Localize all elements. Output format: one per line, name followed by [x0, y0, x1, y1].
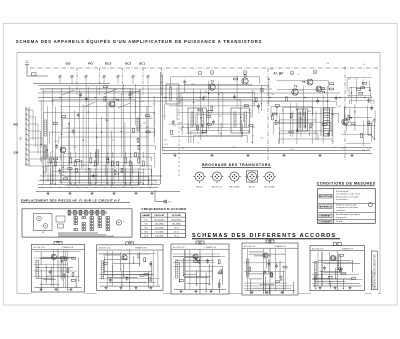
svg-text:100: 100	[260, 137, 263, 139]
svg-text:7,0-7,4Mc: 7,0-7,4Mc	[155, 232, 164, 234]
svg-text:2,2k: 2,2k	[338, 106, 341, 108]
svg-text:BROCHAGE DES TRANSISTORS: BROCHAGE DES TRANSISTORS	[202, 163, 271, 167]
svg-text:FI. BF: FI. BF	[274, 71, 285, 75]
svg-text:220: 220	[252, 127, 255, 129]
svg-text:1k: 1k	[197, 100, 199, 102]
svg-text:0,5: 0,5	[219, 116, 221, 118]
svg-text:47: 47	[198, 143, 200, 145]
svg-text:330: 330	[348, 78, 351, 80]
svg-text:CONDITIONS DE MESURES: CONDITIONS DE MESURES	[317, 181, 376, 185]
svg-text:T6: T6	[322, 90, 326, 94]
svg-text:OC3: OC3	[105, 62, 112, 66]
svg-text:10k: 10k	[326, 63, 329, 65]
svg-text:PO: PO	[56, 242, 60, 245]
svg-text:APPAREILS: APPAREILS	[320, 205, 332, 208]
svg-text:à la masse: à la masse	[336, 217, 347, 219]
svg-text:470: 470	[164, 139, 167, 141]
svg-text:68k: 68k	[308, 111, 311, 113]
svg-text:L’oscillateur et capt. circuit: L’oscillateur et capt. circuit	[336, 193, 361, 196]
svg-text:En hétérodyne par rapport: En hétérodyne par rapport	[336, 213, 361, 216]
svg-text:1k: 1k	[371, 109, 373, 111]
svg-text:GENERAT.: GENERAT.	[320, 215, 331, 218]
svg-text:ACCORD OSC.: ACCORD OSC.	[244, 245, 256, 248]
svg-text:470: 470	[191, 84, 194, 86]
svg-text:RECEPTEUR: RECEPTEUR	[319, 196, 332, 198]
svg-text:0,1: 0,1	[186, 133, 188, 135]
svg-text:5k: 5k	[69, 158, 71, 160]
svg-text:50: 50	[52, 152, 54, 154]
svg-text:5,9-6,3Mc: 5,9-6,3Mc	[155, 228, 164, 230]
svg-text:330: 330	[95, 176, 98, 178]
svg-text:5k: 5k	[342, 148, 344, 150]
svg-text:4,7k: 4,7k	[165, 144, 168, 146]
svg-text:49 m: 49 m	[174, 228, 179, 230]
svg-text:220: 220	[249, 110, 252, 112]
svg-text:AF 127 BIS: AF 127 BIS	[230, 186, 240, 189]
svg-text:150-280kc: 150-280kc	[172, 223, 181, 225]
svg-text:PREAMPLI HF: PREAMPLI HF	[205, 246, 216, 249]
svg-text:10k: 10k	[73, 147, 76, 149]
svg-text:10k: 10k	[182, 127, 185, 129]
svg-text:FREQUENCES D’ACCORD: FREQUENCES D’ACCORD	[142, 207, 187, 211]
svg-text:0,1: 0,1	[315, 132, 317, 134]
svg-text:330: 330	[232, 147, 235, 149]
svg-text:T2: T2	[211, 80, 215, 84]
svg-text:GO: GO	[144, 223, 148, 225]
svg-text:4,7k: 4,7k	[146, 127, 149, 129]
svg-text:0,5: 0,5	[355, 78, 357, 80]
svg-text:OC2: OC2	[125, 62, 132, 66]
svg-text:2,2k: 2,2k	[204, 96, 207, 98]
svg-text:FI: FI	[336, 243, 338, 246]
svg-text:VOIR NOTICE 1965: VOIR NOTICE 1965	[372, 270, 374, 289]
svg-text:68k: 68k	[201, 132, 204, 134]
svg-text:OC1: OC1	[139, 62, 146, 66]
svg-text:41 m: 41 m	[174, 232, 179, 234]
svg-text:OC: OC	[198, 241, 202, 244]
svg-text:68k: 68k	[51, 100, 54, 102]
svg-text:Hauts-parleurs et bobine: Hauts-parleurs et bobine	[336, 195, 360, 198]
svg-text:GAMME: GAMME	[142, 214, 150, 217]
svg-text:4,7k: 4,7k	[151, 183, 154, 185]
svg-text:0,1: 0,1	[153, 103, 155, 105]
svg-text:AF 126 127: AF 126 127	[212, 186, 222, 189]
svg-text:AF 125: AF 125	[196, 186, 202, 189]
svg-text:PO: PO	[88, 62, 93, 66]
svg-text:5k: 5k	[333, 147, 335, 149]
svg-text:0,5: 0,5	[239, 100, 241, 102]
svg-text:50 mA: 50 mA	[336, 220, 343, 223]
svg-text:BE: BE	[268, 240, 272, 243]
svg-text:220: 220	[143, 122, 146, 124]
svg-text:T5: T5	[302, 80, 306, 84]
svg-text:OSCILLAT.: OSCILLAT.	[154, 214, 165, 217]
svg-text:T7: T7	[349, 116, 353, 120]
svg-text:5k: 5k	[174, 126, 176, 128]
svg-text:PREAMPLI HF: PREAMPLI HF	[62, 246, 73, 249]
svg-text:31 m: 31 m	[174, 236, 179, 238]
svg-text:PREAMPLI HF: PREAMPLI HF	[275, 245, 286, 248]
svg-text:9,4-9,9Mc: 9,4-9,9Mc	[155, 236, 164, 238]
svg-text:PREAMPLI HF: PREAMPLI HF	[342, 247, 353, 250]
svg-text:ou appareil à très haute: ou appareil à très haute	[336, 206, 359, 209]
svg-text:47: 47	[305, 131, 307, 133]
svg-text:50: 50	[180, 123, 182, 125]
svg-text:100: 100	[139, 126, 142, 128]
svg-text:PO: PO	[14, 123, 19, 127]
svg-text:ACCORD OSC.: ACCORD OSC.	[312, 247, 324, 250]
svg-text:2,2k: 2,2k	[113, 98, 116, 100]
svg-text:GO: GO	[66, 62, 71, 66]
svg-text:GO: GO	[14, 151, 19, 155]
svg-text:100: 100	[271, 94, 274, 96]
svg-text:PREAMPLI HF: PREAMPLI HF	[135, 247, 146, 250]
svg-text:EMPLACEMENT DES PIECES HF. FI: EMPLACEMENT DES PIECES HF. FI SUR LE CIR…	[21, 198, 120, 202]
svg-text:15k: 15k	[182, 148, 185, 150]
svg-text:50: 50	[252, 135, 254, 137]
svg-text:470: 470	[82, 164, 85, 166]
svg-text:0,1: 0,1	[163, 116, 165, 118]
svg-text:1k: 1k	[363, 64, 365, 66]
svg-text:10k: 10k	[270, 69, 273, 71]
svg-text:220: 220	[362, 150, 365, 152]
svg-text:ACCORD: ACCORD	[172, 214, 181, 217]
svg-text:510-1647kc: 510-1647kc	[154, 219, 164, 221]
svg-text:2,2k: 2,2k	[290, 149, 293, 151]
svg-text:résistance: résistance	[336, 209, 346, 212]
svg-text:0,5: 0,5	[297, 74, 299, 76]
svg-text:Voltmètre électronique: Voltmètre électronique	[336, 204, 358, 207]
svg-text:10k: 10k	[204, 91, 207, 93]
svg-text:50: 50	[112, 140, 114, 142]
svg-text:4,7k: 4,7k	[367, 148, 370, 150]
svg-text:ACCORD OSC.: ACCORD OSC.	[173, 246, 185, 249]
svg-text:47: 47	[318, 90, 320, 92]
svg-text:SCHEMA DES APPAREILS ÉQUIPÉS D: SCHEMA DES APPAREILS ÉQUIPÉS D’UN AMPLIF…	[16, 39, 262, 44]
svg-text:Pas de signal: Pas de signal	[336, 191, 349, 193]
svg-text:47: 47	[258, 112, 260, 114]
svg-text:AC 127: AC 127	[249, 186, 255, 189]
svg-text:T1: T1	[116, 98, 120, 102]
svg-text:4,7k: 4,7k	[87, 112, 90, 114]
svg-text:68k: 68k	[106, 121, 109, 123]
svg-text:150-284kc: 150-284kc	[155, 223, 164, 225]
svg-text:470: 470	[54, 141, 57, 143]
svg-text:T4: T4	[294, 85, 298, 89]
svg-text:COURANT: COURANT	[320, 221, 331, 224]
svg-text:470: 470	[300, 90, 303, 92]
svg-text:15k: 15k	[62, 174, 65, 176]
svg-text:au minimum: au minimum	[336, 199, 348, 201]
svg-text:PO: PO	[145, 219, 148, 221]
svg-text:ACCORD OSC.: ACCORD OSC.	[99, 247, 111, 250]
svg-text:0,1: 0,1	[149, 117, 151, 119]
svg-text:15k: 15k	[331, 140, 334, 142]
svg-text:GO: GO	[128, 242, 132, 245]
svg-text:1k: 1k	[279, 128, 281, 130]
svg-text:AC 132 BIS: AC 132 BIS	[265, 186, 276, 189]
svg-text:330: 330	[129, 98, 132, 100]
svg-text:100: 100	[141, 101, 144, 103]
svg-text:ACCORD OSC.: ACCORD OSC.	[34, 246, 46, 249]
svg-text:520-1620kc: 520-1620kc	[171, 219, 181, 221]
